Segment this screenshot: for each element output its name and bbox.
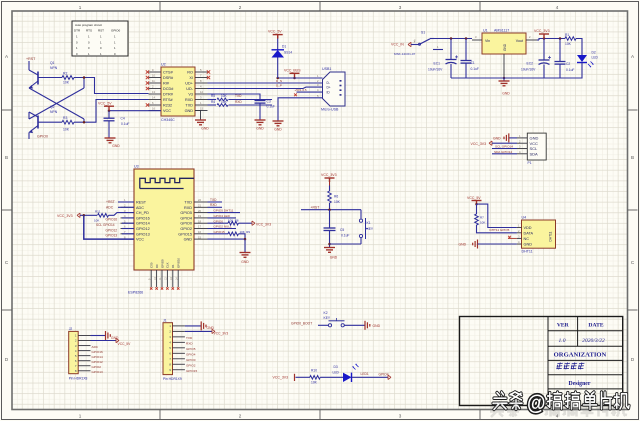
svg-text:RI#: RI# xyxy=(163,82,170,86)
svg-text:CH340C: CH340C xyxy=(161,118,175,122)
svg-text:DTR#: DTR# xyxy=(163,93,174,97)
svg-text:10uF/16V: 10uF/16V xyxy=(428,68,443,72)
svg-text:18: 18 xyxy=(198,219,201,223)
power port VCC_3V3 P1 xyxy=(471,141,518,146)
wire R7 to U4 DATA xyxy=(477,225,517,233)
capacitor C5 xyxy=(324,210,350,248)
svg-text:U1: U1 xyxy=(483,28,488,32)
svg-text:RXD: RXD xyxy=(186,342,193,346)
IC U3 ESP8266 xyxy=(121,164,208,294)
svg-text:16: 16 xyxy=(198,230,201,234)
resistor R11 CH_PD pullup xyxy=(94,210,109,223)
svg-text:R4: R4 xyxy=(211,100,215,104)
svg-text:2020/3/22: 2020/3/22 xyxy=(582,338,605,344)
svg-text:R232: R232 xyxy=(163,104,172,108)
wire UD+ to USB D- xyxy=(208,79,323,83)
net label +5V fuse xyxy=(294,88,307,96)
net GPIO4 port xyxy=(379,372,392,379)
ground J1 xyxy=(185,321,215,330)
svg-text:GPIO13: GPIO13 xyxy=(106,234,118,238)
ground boot key xyxy=(365,321,381,330)
svg-text:GPIO0: GPIO0 xyxy=(111,29,121,33)
svg-text:R2: R2 xyxy=(63,72,67,76)
net GPIO13 J2 xyxy=(92,370,103,374)
svg-text:VCC_3V3: VCC_3V3 xyxy=(57,214,73,218)
net GPIO0_BOOT label xyxy=(291,321,312,325)
resistor R10 xyxy=(310,368,321,384)
svg-text:P1: P1 xyxy=(528,161,532,165)
svg-text:17: 17 xyxy=(198,225,201,229)
svg-text:20: 20 xyxy=(198,209,201,213)
svg-text:SCL GPIO14: SCL GPIO14 xyxy=(495,145,513,149)
svg-text:ORGANIZATION: ORGANIZATION xyxy=(554,352,607,359)
title block xyxy=(460,317,623,406)
svg-text:B: B xyxy=(631,155,634,160)
svg-text:USB1: USB1 xyxy=(322,67,331,71)
svg-text:3: 3 xyxy=(399,5,402,10)
connector P1 xyxy=(517,133,546,165)
wire VCC_BUS to USB pin1 xyxy=(276,77,322,80)
svg-text:GPIO2: GPIO2 xyxy=(92,365,102,369)
svg-text:J1: J1 xyxy=(163,319,167,323)
svg-text:GPIO4: GPIO4 xyxy=(180,216,192,220)
svg-text:D_N: D_N xyxy=(276,79,282,83)
svg-text:GPIO4: GPIO4 xyxy=(186,353,196,357)
svg-text:SCL: SCL xyxy=(530,146,539,151)
wire R1 to LED D2 xyxy=(576,39,582,56)
svg-text:VCC: VCC xyxy=(136,238,144,242)
svg-text:GPIO2: GPIO2 xyxy=(186,363,196,367)
svg-text:VCC_3V3: VCC_3V3 xyxy=(321,173,337,177)
svg-text:10K: 10K xyxy=(221,94,228,98)
net GPIO15 J1 xyxy=(186,369,197,373)
svg-text:1.0: 1.0 xyxy=(559,338,566,344)
net TXD J1 xyxy=(186,336,193,340)
svg-text:GND: GND xyxy=(241,260,249,264)
svg-text:RTS: RTS xyxy=(86,29,92,33)
svg-text:10K: 10K xyxy=(565,42,572,46)
resistor R8 GPIO0 pullup xyxy=(208,218,239,225)
svg-text:EC1: EC1 xyxy=(434,62,441,66)
svg-text:12: 12 xyxy=(200,90,203,94)
svg-text:15: 15 xyxy=(198,235,201,239)
wire R2 to U2 DTR row xyxy=(74,78,149,94)
svg-text:GPIO0_BOOT: GPIO0_BOOT xyxy=(291,321,312,325)
wire R4 to net RXD xyxy=(229,100,273,105)
resistor R9 GPIO15 pulldown xyxy=(208,230,251,236)
svg-text:GPIO13: GPIO13 xyxy=(136,232,150,236)
svg-text:2: 2 xyxy=(239,414,242,419)
svg-text:KEY: KEY xyxy=(367,227,374,231)
net GPIO4 LED at U3 xyxy=(208,214,237,218)
net RXD J1 xyxy=(186,342,193,346)
svg-text:VCC_3V3: VCC_3V3 xyxy=(256,223,271,227)
svg-text:10K: 10K xyxy=(63,128,70,132)
svg-text:2: 2 xyxy=(239,5,242,10)
svg-text:SCL GPIO14: SCL GPIO14 xyxy=(96,223,115,227)
svg-text:Micro-USB: Micro-USB xyxy=(321,108,339,112)
svg-text:VCC_3V3: VCC_3V3 xyxy=(471,142,487,146)
svg-text:TXD: TXD xyxy=(210,198,217,202)
svg-text:U2: U2 xyxy=(161,63,166,67)
IC U2 CH340C xyxy=(149,63,208,122)
svg-text:10K: 10K xyxy=(480,221,485,225)
net GPIO0 label xyxy=(37,135,48,139)
svg-text:GPIO15: GPIO15 xyxy=(178,232,192,236)
svg-text:C2: C2 xyxy=(566,62,570,66)
svg-text:D3: D3 xyxy=(334,365,338,369)
resistor R2 xyxy=(62,72,74,85)
svg-text:GND: GND xyxy=(185,109,194,113)
ground C3 xyxy=(255,120,266,131)
svg-text:13: 13 xyxy=(152,90,155,94)
svg-text:DCD#: DCD# xyxy=(163,87,174,91)
wire LED D2 to ground rail xyxy=(451,63,582,79)
svg-text:D1: D1 xyxy=(171,264,175,268)
power port VCC_5V DHT11 xyxy=(467,196,482,205)
svg-text:GPIO12: GPIO12 xyxy=(106,228,118,232)
svg-text:GPIO16: GPIO16 xyxy=(106,218,118,222)
wire U3 GND pin xyxy=(208,238,247,253)
capacitor C4 xyxy=(104,111,130,138)
svg-text:21: 21 xyxy=(198,204,201,208)
svg-text:GPIO5: GPIO5 xyxy=(186,347,196,351)
resistor R1 xyxy=(565,33,576,46)
ground USB xyxy=(273,121,284,132)
net +RST at U3 xyxy=(106,200,134,204)
svg-text:R11: R11 xyxy=(95,210,101,214)
transistor Q1 xyxy=(29,61,62,89)
net GPIO13 at U3 xyxy=(106,234,135,238)
svg-text:D+: D+ xyxy=(327,85,331,89)
net RXD at U3 xyxy=(208,203,223,207)
svg-text:R1: R1 xyxy=(565,33,569,37)
svg-text:GPIO2: GPIO2 xyxy=(180,227,192,231)
svg-text:LED: LED xyxy=(333,371,340,375)
wire switch to U1 Vin rail xyxy=(434,37,472,40)
svg-text:B: B xyxy=(5,155,8,160)
svg-text:XI: XI xyxy=(189,76,193,80)
wire U1 Vout rail xyxy=(537,37,565,40)
svg-text:14: 14 xyxy=(152,96,155,100)
svg-text:+RST: +RST xyxy=(311,206,320,210)
note: auto program truth table xyxy=(72,21,128,56)
svg-text:Auto program circuit: Auto program circuit xyxy=(75,23,102,27)
power port VCC_IN xyxy=(391,40,416,47)
svg-text:19: 19 xyxy=(198,214,201,218)
svg-text:GPIO13: GPIO13 xyxy=(92,370,103,374)
svg-text:RXD: RXD xyxy=(210,203,217,207)
svg-text:10K: 10K xyxy=(63,81,70,85)
ground C4 xyxy=(105,138,121,148)
svg-text:GPIO16: GPIO16 xyxy=(92,350,103,354)
svg-text:RXD: RXD xyxy=(185,98,193,102)
net GPIO12 at U3 xyxy=(106,228,135,232)
svg-text:DATE: DATE xyxy=(588,322,603,328)
svg-text:VCC_IN: VCC_IN xyxy=(391,42,404,46)
svg-text:0.1uF: 0.1uF xyxy=(566,68,574,72)
capacitor C2 xyxy=(555,39,575,79)
svg-text:GPIO0: GPIO0 xyxy=(186,358,196,362)
svg-text:AMS1117: AMS1117 xyxy=(494,28,509,32)
svg-text:ADC: ADC xyxy=(106,205,114,209)
svg-text:0.1uF: 0.1uF xyxy=(471,67,479,71)
svg-text:RO: RO xyxy=(187,71,193,75)
svg-text:DHT11: DHT11 xyxy=(549,231,553,241)
svg-text:VCC: VCC xyxy=(530,141,539,146)
svg-text:GND: GND xyxy=(459,242,467,246)
svg-text:GPIO10: GPIO10 xyxy=(177,257,181,268)
svg-text:U4: U4 xyxy=(522,216,527,220)
resistor R6 xyxy=(328,186,341,210)
svg-text:3: 3 xyxy=(399,414,402,419)
wire R5 to net TXD xyxy=(229,94,273,99)
svg-text:LED1: LED1 xyxy=(361,372,369,376)
power port VCC_3V3 reset xyxy=(321,173,337,186)
svg-text:SDA GPIO12: SDA GPIO12 xyxy=(494,150,513,154)
svg-text:SS14: SS14 xyxy=(284,51,292,55)
switch S1 xyxy=(394,31,443,57)
transistor Q2 xyxy=(29,105,62,139)
wire U2 GND pin to ground xyxy=(195,111,201,121)
svg-text:LED: LED xyxy=(592,56,599,60)
svg-text:0.1uF: 0.1uF xyxy=(121,122,129,126)
svg-text:GPIO14: GPIO14 xyxy=(136,222,150,226)
power port VCC_5V J2 xyxy=(91,338,132,346)
title organization name xyxy=(556,363,584,370)
svg-text:ADC: ADC xyxy=(136,206,144,210)
svg-text:16: 16 xyxy=(152,107,155,111)
ground U1 xyxy=(499,77,511,96)
svg-text:GPIO0: GPIO0 xyxy=(180,222,192,226)
svg-text:GPIO12: GPIO12 xyxy=(136,227,150,231)
svg-text:VCC: VCC xyxy=(163,109,171,113)
svg-text:VDD: VDD xyxy=(524,226,532,230)
net SDA GPIO12 P1 xyxy=(492,150,517,154)
svg-text:GND: GND xyxy=(201,127,209,131)
svg-text:GND: GND xyxy=(112,144,120,148)
svg-text:GPIO2 NULL: GPIO2 NULL xyxy=(214,225,233,229)
svg-text:CTS#: CTS# xyxy=(163,71,174,75)
LED D3 xyxy=(333,364,359,382)
svg-text:V3: V3 xyxy=(188,93,193,97)
svg-text:DATA: DATA xyxy=(524,231,534,235)
svg-text:22: 22 xyxy=(198,198,201,202)
svg-text:1: 1 xyxy=(79,5,82,10)
net SCL GPIO14 at U3 xyxy=(96,223,134,227)
svg-text:GND: GND xyxy=(207,326,215,330)
resistor R7 xyxy=(475,204,486,225)
capacitor C1 xyxy=(461,39,479,79)
svg-text:DTR: DTR xyxy=(74,29,81,33)
svg-text:UD-: UD- xyxy=(186,87,193,91)
net GPIO5 DHT11 at U3 xyxy=(208,209,241,213)
svg-text:EC2: EC2 xyxy=(527,62,534,66)
svg-text:10K: 10K xyxy=(334,200,341,204)
ground U3 xyxy=(240,253,251,265)
connector J2 xyxy=(69,327,91,380)
svg-text:CLK: CLK xyxy=(166,262,170,268)
svg-text:R7: R7 xyxy=(480,216,484,220)
wire VCC_3V3 to R10 xyxy=(296,376,311,378)
svg-text:NPN: NPN xyxy=(50,110,58,114)
svg-text:DSR#: DSR# xyxy=(163,76,174,80)
power port VCC_3V3 J1 xyxy=(185,329,228,335)
wire VCC_3V3 to U3 VCC xyxy=(84,215,134,239)
svg-text:J2: J2 xyxy=(69,327,73,331)
net GPIO0 J1 xyxy=(186,358,196,362)
svg-text:GND: GND xyxy=(184,238,193,242)
svg-text:DHT11: DHT11 xyxy=(522,250,533,254)
svg-text:GPIO12: GPIO12 xyxy=(92,360,103,364)
net GPIO2 at U3 xyxy=(208,225,237,229)
svg-text:+RST: +RST xyxy=(26,57,36,61)
svg-text:MSK-12C01-07: MSK-12C01-07 xyxy=(394,52,416,56)
IC U1 AMS1117 xyxy=(472,28,537,78)
LED D2 xyxy=(577,51,599,68)
net GPIO2 J2 xyxy=(92,365,102,369)
wire U2 VCC row to C4 node xyxy=(108,109,161,112)
svg-text:TXD: TXD xyxy=(235,94,242,98)
wire VCC_5V to U4 VDD xyxy=(477,204,517,227)
svg-text:GND: GND xyxy=(503,43,507,51)
net +RST label xyxy=(26,57,36,61)
power port VCC_3V3 at U3 xyxy=(57,213,97,218)
svg-text:C5: C5 xyxy=(340,228,344,232)
resistor R3 xyxy=(62,116,74,132)
svg-text:GPIO15: GPIO15 xyxy=(186,369,197,373)
power port VCC_3V3 at GPIO0 xyxy=(239,221,272,227)
svg-text:@: @ xyxy=(527,392,546,415)
svg-text:RXD: RXD xyxy=(235,100,242,104)
svg-text:D1: D1 xyxy=(282,45,286,49)
svg-text:GND: GND xyxy=(274,128,282,132)
net GPIO4 J1 xyxy=(186,353,196,357)
svg-text:D_P: D_P xyxy=(276,83,282,87)
capacitor EC2 xyxy=(521,39,551,79)
ground reset key xyxy=(324,248,338,260)
net GPIO2 J1 xyxy=(186,363,196,367)
svg-text:VCC_BUS: VCC_BUS xyxy=(284,68,301,72)
key K2 xyxy=(318,311,365,327)
svg-text:CS0: CS0 xyxy=(150,262,154,268)
svg-text:10K: 10K xyxy=(311,381,318,385)
svg-text:ESP8266: ESP8266 xyxy=(128,291,143,295)
net GPIO14 J2 xyxy=(92,355,103,359)
net +RST wire xyxy=(301,206,361,211)
svg-text:GPIO14: GPIO14 xyxy=(92,355,103,359)
svg-text:KEY: KEY xyxy=(324,316,331,320)
net TXD at U3 xyxy=(208,198,223,202)
power port VCC_3V3 at regulator xyxy=(534,29,550,39)
key K1 xyxy=(330,210,374,244)
svg-text:Q1: Q1 xyxy=(50,61,55,65)
svg-text:10K: 10K xyxy=(221,100,228,104)
svg-text:Designer: Designer xyxy=(569,381,591,387)
svg-text:UD+: UD+ xyxy=(185,82,193,86)
svg-text:VCC_5V: VCC_5V xyxy=(118,342,132,346)
svg-text:Pin HDR1X9: Pin HDR1X9 xyxy=(163,377,182,381)
svg-text:GND: GND xyxy=(530,136,539,141)
svg-text:GPIO15: GPIO15 xyxy=(214,230,225,234)
power port VCC_3V3 LED xyxy=(273,374,295,381)
svg-text:REST: REST xyxy=(136,201,147,205)
svg-text:10K: 10K xyxy=(94,219,99,223)
svg-text:GPIO5 DHT11: GPIO5 DHT11 xyxy=(214,209,234,213)
svg-text:K1: K1 xyxy=(367,221,371,225)
wire D3 to GPIO4 xyxy=(352,372,389,377)
wire USB ID stub xyxy=(297,91,323,93)
wire UD- to USB D+ xyxy=(208,83,323,88)
svg-text:C4: C4 xyxy=(121,117,125,121)
svg-text:VCC_5V: VCC_5V xyxy=(268,30,282,34)
wire R9 to GND net xyxy=(239,234,246,239)
IC U4 DHT11 xyxy=(517,216,556,254)
wire R10 to D3 xyxy=(320,376,343,378)
svg-text:NPN: NPN xyxy=(50,66,58,70)
svg-text:RST: RST xyxy=(98,29,104,33)
svg-text:GND: GND xyxy=(373,324,381,328)
svg-text:CH_PD: CH_PD xyxy=(136,211,149,215)
wire cross-couple X xyxy=(29,76,85,123)
net ADC at U3 xyxy=(106,205,134,209)
svg-text:GND: GND xyxy=(524,243,533,247)
ground U2 xyxy=(195,120,209,131)
net GPIO16 at U3 xyxy=(106,218,135,222)
capacitor EC1 xyxy=(428,39,458,79)
power port VCC_5V above D1 xyxy=(268,30,283,39)
svg-text:GPIO16: GPIO16 xyxy=(136,216,150,220)
svg-text:0.1uF: 0.1uF xyxy=(341,234,349,238)
ground J2 xyxy=(91,331,119,340)
net GPIO5 J1 xyxy=(186,347,196,351)
svg-text:10: 10 xyxy=(152,74,155,78)
svg-text:GND: GND xyxy=(502,92,510,96)
svg-text:S1: S1 xyxy=(421,31,425,35)
wire R11 to CH_PD xyxy=(109,213,135,216)
svg-text:D0: D0 xyxy=(155,264,159,268)
svg-text:C1: C1 xyxy=(471,61,475,65)
power port VCC_BUS xyxy=(284,68,301,79)
svg-text:GPIO4: GPIO4 xyxy=(379,372,389,376)
svg-text:VCC_3V3: VCC_3V3 xyxy=(273,375,289,379)
svg-text:TXD: TXD xyxy=(185,104,193,108)
wire R3 to U2 RTS row xyxy=(74,100,149,123)
svg-text:R10: R10 xyxy=(311,368,317,372)
svg-text:4: 4 xyxy=(556,5,559,10)
svg-text:GND: GND xyxy=(493,136,501,140)
wire USB GND to ground xyxy=(278,98,323,121)
svg-text:VCC_5V: VCC_5V xyxy=(467,196,481,200)
no-ERC marks U2 right pins RO XI xyxy=(207,70,210,79)
resistor R4 xyxy=(208,100,229,106)
ground P1 xyxy=(493,133,517,142)
svg-text:10K R8: 10K R8 xyxy=(228,218,239,222)
svg-text:R6: R6 xyxy=(334,195,338,199)
svg-text:VCC_3V3: VCC_3V3 xyxy=(534,29,550,33)
watermark shadow line xyxy=(490,402,626,418)
svg-text:K2: K2 xyxy=(324,311,328,315)
svg-text:VCC_5V: VCC_5V xyxy=(98,101,112,105)
net SCL GPIO14 P1 xyxy=(492,145,517,149)
resistor R5 xyxy=(208,94,229,101)
svg-text:R5: R5 xyxy=(211,94,215,98)
svg-text:R3: R3 xyxy=(63,116,67,120)
no-connect U4 NC xyxy=(508,236,517,239)
wire V3 to C3 xyxy=(208,94,261,100)
svg-text:C3: C3 xyxy=(267,100,271,104)
watermark toutiao xyxy=(493,392,629,415)
